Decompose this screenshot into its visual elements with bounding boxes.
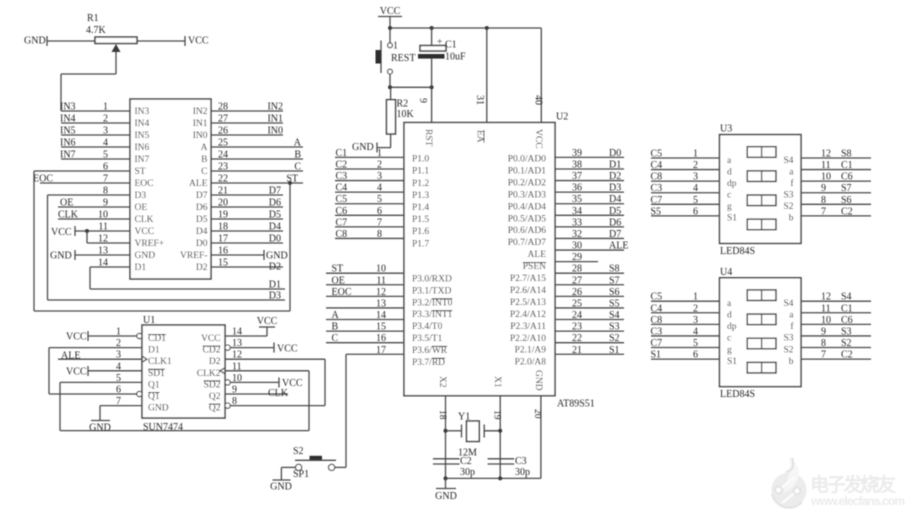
U4 pin 6 wire net S1 xyxy=(651,358,720,360)
wire Q1 to CLK2 loop xyxy=(59,382,61,430)
svg-text:d: d xyxy=(727,311,732,321)
svg-text:3: 3 xyxy=(693,315,698,326)
U4 pin 9 wire net S3 xyxy=(801,335,871,337)
svg-text:GND: GND xyxy=(533,370,543,391)
wire R1 wiper to ADC IN3 xyxy=(115,52,117,74)
svg-text:LED84S: LED84S xyxy=(720,389,755,400)
U3 pin 11 wire net C1 xyxy=(801,169,871,171)
ADC pin 2 wire xyxy=(61,122,130,124)
ADC pin 5 wire xyxy=(61,158,130,160)
U3 pin 1 wire net C5 xyxy=(651,157,720,159)
svg-text:P0.0/AD0: P0.0/AD0 xyxy=(508,155,547,165)
ADC pin 6 wire xyxy=(34,170,130,172)
svg-text:P0.3/AD3: P0.3/AD3 xyxy=(508,190,547,200)
svg-text:S3: S3 xyxy=(609,322,620,333)
svg-text:VREF+: VREF+ xyxy=(135,239,165,249)
U2 pin 21 P2.0 wire net S1 xyxy=(555,353,624,355)
svg-text:P1.5: P1.5 xyxy=(412,215,429,225)
svg-text:Q2: Q2 xyxy=(209,404,221,414)
svg-text:P1.7: P1.7 xyxy=(412,239,429,249)
svg-text:4.7K: 4.7K xyxy=(86,25,107,36)
svg-text:X2: X2 xyxy=(437,376,447,388)
U3 pin 7 wire net C2 xyxy=(801,215,871,217)
ADC pin 18 wire xyxy=(211,230,283,232)
svg-text:P2.3/A11: P2.3/A11 xyxy=(510,322,546,332)
U2 pin 4 P1.3 wire net C4 xyxy=(335,191,404,193)
svg-text:27: 27 xyxy=(218,114,228,125)
svg-text:b: b xyxy=(789,214,794,224)
svg-text:+: + xyxy=(437,38,442,48)
svg-text:8: 8 xyxy=(821,195,826,206)
svg-text:C4: C4 xyxy=(651,303,663,314)
svg-text:2: 2 xyxy=(693,303,698,314)
svg-text:D1: D1 xyxy=(269,280,281,291)
svg-text:11: 11 xyxy=(232,361,242,372)
svg-text:P1.1: P1.1 xyxy=(412,167,429,177)
wire X1 down xyxy=(499,396,501,479)
microcontroller U2 AT89S51 body xyxy=(404,123,555,396)
svg-text:31: 31 xyxy=(474,95,485,105)
svg-text:VCC: VCC xyxy=(66,332,87,343)
U2 pin 27 P2.6 wire net S7 xyxy=(555,284,624,286)
capacitor C3 30p xyxy=(488,458,515,460)
U2 pin 34 P0.5 wire net D5 xyxy=(555,214,624,216)
svg-text:12: 12 xyxy=(821,149,831,160)
wire EA pin 31 from VCC rail xyxy=(486,28,488,123)
svg-text:D6: D6 xyxy=(269,198,281,209)
svg-text:IN6: IN6 xyxy=(60,138,76,149)
svg-text:7: 7 xyxy=(377,217,382,228)
svg-text:SD2: SD2 xyxy=(204,380,221,390)
svg-text:15: 15 xyxy=(218,258,228,269)
svg-text:ALE: ALE xyxy=(609,241,628,252)
svg-text:C1: C1 xyxy=(841,303,853,314)
svg-text:S4: S4 xyxy=(841,292,852,303)
U4 segment box 4 xyxy=(747,362,776,373)
svg-text:12: 12 xyxy=(98,234,108,245)
svg-text:32: 32 xyxy=(572,229,582,240)
svg-text:IN0: IN0 xyxy=(193,131,208,141)
ADC pin 24 wire xyxy=(211,158,303,160)
svg-text:D5: D5 xyxy=(269,210,281,221)
svg-text:9: 9 xyxy=(232,385,237,396)
U2 pin 14 P3.4 wire xyxy=(326,319,404,321)
svg-text:VCC: VCC xyxy=(188,36,209,47)
wire Q1bar to D1 loop xyxy=(48,348,50,394)
U2 pin 3 P1.2 wire net C3 xyxy=(335,180,404,182)
svg-text:7: 7 xyxy=(821,350,826,361)
svg-text:26: 26 xyxy=(572,287,582,298)
svg-text:25: 25 xyxy=(218,138,228,149)
svg-text:18: 18 xyxy=(437,410,447,420)
ground label GND at R2 bottom xyxy=(377,147,391,149)
U2 pin 38 P0.1 wire net D1 xyxy=(555,168,624,170)
U3 pin 8 wire net S6 xyxy=(801,203,871,205)
svg-text:4: 4 xyxy=(693,326,698,337)
U2 pin 17 P3.7 wire xyxy=(346,353,404,355)
svg-text:4: 4 xyxy=(693,183,698,194)
svg-text:S4: S4 xyxy=(783,156,793,166)
svg-text:10uF: 10uF xyxy=(445,52,466,63)
ADC pin 4 wire xyxy=(61,146,130,148)
svg-text:23: 23 xyxy=(572,322,582,333)
svg-text:18: 18 xyxy=(218,222,228,233)
svg-text:C: C xyxy=(332,333,339,344)
svg-text:9: 9 xyxy=(821,326,826,337)
wire crystal ground rail xyxy=(446,477,541,479)
ground symbol below U1 xyxy=(91,420,110,422)
svg-text:S7: S7 xyxy=(841,183,852,194)
wire button to capacitor junction xyxy=(390,86,432,88)
svg-text:7: 7 xyxy=(821,206,826,217)
svg-text:P3.2/INT0: P3.2/INT0 xyxy=(412,298,453,308)
svg-text:8: 8 xyxy=(232,396,237,407)
wire S2 right to U2 pin 17 xyxy=(335,466,346,468)
U2 pin 2 P1.1 wire net C2 xyxy=(335,168,404,170)
svg-text:C1: C1 xyxy=(445,40,457,51)
svg-text:3: 3 xyxy=(377,171,382,182)
svg-text:D0: D0 xyxy=(609,148,621,159)
ADC pin 13 wire xyxy=(75,254,130,256)
svg-text:D3: D3 xyxy=(269,291,281,302)
svg-text:9: 9 xyxy=(417,98,428,103)
svg-text:R1: R1 xyxy=(87,13,99,24)
svg-text:S2: S2 xyxy=(293,446,304,457)
ADC pin 20 wire xyxy=(211,206,283,208)
svg-text:10K: 10K xyxy=(397,109,415,120)
svg-text:CLK2: CLK2 xyxy=(197,369,221,379)
capacitor C1 10uF electrolytic xyxy=(431,28,433,46)
svg-text:9: 9 xyxy=(103,198,108,209)
svg-text:S1: S1 xyxy=(727,357,737,367)
svg-text:11: 11 xyxy=(821,160,831,171)
svg-text:D4: D4 xyxy=(196,227,208,237)
svg-text:S8: S8 xyxy=(609,264,620,275)
ground symbol at S2 xyxy=(273,479,291,481)
svg-text:C3: C3 xyxy=(336,171,348,182)
svg-text:14: 14 xyxy=(232,327,242,338)
svg-text:S1: S1 xyxy=(651,350,662,361)
svg-text:C6: C6 xyxy=(841,315,853,326)
svg-text:S2: S2 xyxy=(609,333,620,344)
svg-text:4: 4 xyxy=(377,183,382,194)
U4 pin 3 wire net C8 xyxy=(651,323,720,325)
svg-text:EA: EA xyxy=(475,130,485,143)
svg-text:28: 28 xyxy=(572,264,582,275)
capacitor C2 30p xyxy=(433,458,460,460)
svg-text:www.elecfans.com: www.elecfans.com xyxy=(810,494,905,508)
junction ST at ADC pin 22 xyxy=(288,181,292,185)
ADC pin 9 wire xyxy=(58,206,130,208)
svg-text:1: 1 xyxy=(393,41,398,52)
svg-text:A: A xyxy=(294,138,302,149)
svg-text:23: 23 xyxy=(218,162,228,173)
svg-text:IN7: IN7 xyxy=(135,155,150,165)
power label VCC at ADC pin 11 with junction to pin 12 xyxy=(74,226,76,236)
svg-text:AT89S51: AT89S51 xyxy=(557,399,595,410)
svg-text:7: 7 xyxy=(116,396,121,407)
ADC pin 21 wire xyxy=(211,194,283,196)
svg-text:P0.4/AD4: P0.4/AD4 xyxy=(508,202,547,212)
svg-text:S3: S3 xyxy=(841,326,852,337)
ground label GND at U2 pin 1 region xyxy=(389,147,390,149)
svg-text:S3: S3 xyxy=(783,191,793,201)
flip-flop U1 body xyxy=(142,325,225,418)
svg-text:P3.6/WR: P3.6/WR xyxy=(412,346,448,356)
U3 pin 4 wire net C3 xyxy=(651,192,720,194)
svg-text:35: 35 xyxy=(572,194,582,205)
U3 pin 6 wire net S5 xyxy=(651,215,720,217)
svg-text:IN2: IN2 xyxy=(193,107,208,117)
svg-text:D7: D7 xyxy=(196,191,208,201)
svg-text:5: 5 xyxy=(377,194,382,205)
svg-text:S1: S1 xyxy=(609,345,620,356)
svg-text:D5: D5 xyxy=(196,215,208,225)
push button S1 REST xyxy=(389,28,391,43)
svg-text:CLK: CLK xyxy=(268,388,289,399)
svg-text:SD1: SD1 xyxy=(148,369,165,379)
svg-text:P3.5/T1: P3.5/T1 xyxy=(412,334,443,344)
svg-text:C7: C7 xyxy=(336,217,348,228)
svg-text:LED84S: LED84S xyxy=(720,246,755,257)
svg-text:39: 39 xyxy=(572,148,582,159)
svg-text:VCC: VCC xyxy=(201,334,221,344)
svg-text:P2.0/A8: P2.0/A8 xyxy=(515,358,547,368)
svg-text:P3.1/TXD: P3.1/TXD xyxy=(412,286,451,296)
svg-text:20: 20 xyxy=(532,409,542,419)
svg-text:1: 1 xyxy=(693,149,698,160)
svg-text:S5: S5 xyxy=(609,298,620,309)
svg-text:GND: GND xyxy=(89,423,111,434)
svg-text:d: d xyxy=(727,167,732,177)
U3 segment box 1 xyxy=(747,147,776,158)
svg-text:SP1: SP1 xyxy=(293,469,309,480)
svg-text:B: B xyxy=(201,155,207,165)
svg-text:VCC: VCC xyxy=(533,129,543,149)
svg-text:P2.5/A13: P2.5/A13 xyxy=(510,298,546,308)
svg-text:GND: GND xyxy=(352,142,374,153)
svg-text:GND: GND xyxy=(50,251,72,262)
svg-text:30p: 30p xyxy=(515,467,530,478)
U4 pin 10 wire net C6 xyxy=(801,323,871,325)
svg-text:30p: 30p xyxy=(460,467,475,478)
svg-text:24: 24 xyxy=(572,310,582,321)
svg-text:OE: OE xyxy=(135,203,148,213)
U3 segment box 2 xyxy=(747,171,776,182)
svg-text:IN4: IN4 xyxy=(135,119,150,129)
svg-text:2: 2 xyxy=(377,159,382,170)
svg-text:VCC: VCC xyxy=(66,366,87,377)
U3 pin 9 wire net S7 xyxy=(801,192,871,194)
svg-text:R2: R2 xyxy=(397,99,409,110)
svg-text:26: 26 xyxy=(218,126,228,137)
svg-text:D1: D1 xyxy=(135,263,147,273)
svg-text:A: A xyxy=(332,310,340,321)
svg-text:C7: C7 xyxy=(651,338,663,349)
svg-text:c: c xyxy=(727,191,731,201)
U4 pin 12 wire net S4 xyxy=(801,300,871,302)
svg-text:S2: S2 xyxy=(841,338,852,349)
ADC pin 26 wire xyxy=(211,134,283,136)
svg-text:OE: OE xyxy=(60,198,73,209)
U2 pin 30 ALE wire xyxy=(555,249,624,251)
U2 pin 11 P3.1 wire xyxy=(326,284,404,286)
svg-text:VREF-: VREF- xyxy=(180,251,207,261)
U2 pin 32 P0.7 wire net D7 xyxy=(555,237,624,239)
wire net ST loop from ADC pin 6 to pin 22 xyxy=(33,171,35,311)
svg-text:电子发烧友: 电子发烧友 xyxy=(810,473,896,496)
svg-text:C1: C1 xyxy=(336,148,348,159)
svg-text:SUN7474: SUN7474 xyxy=(143,422,183,433)
svg-text:c: c xyxy=(727,334,731,344)
ground label GND at ADC pin 13 xyxy=(74,250,76,260)
svg-text:1: 1 xyxy=(377,148,382,159)
ground symbol below crystal xyxy=(445,478,447,488)
svg-text:27: 27 xyxy=(572,275,582,286)
U2 pin 29 PSEN wire xyxy=(555,261,598,263)
svg-text:2: 2 xyxy=(103,114,108,125)
elecfans watermark logo xyxy=(772,457,906,508)
svg-text:21: 21 xyxy=(572,345,582,356)
ADC pin 25 wire xyxy=(211,146,303,148)
ADC pin 11 wire xyxy=(75,230,130,232)
U3 pin 10 wire net C6 xyxy=(801,180,871,182)
svg-text:C8: C8 xyxy=(336,229,348,240)
svg-text:IN3: IN3 xyxy=(135,107,150,117)
svg-text:X1: X1 xyxy=(492,376,502,388)
svg-text:33: 33 xyxy=(572,217,582,228)
ADC pin 8 wire xyxy=(48,194,131,196)
svg-text:D2: D2 xyxy=(209,357,221,367)
svg-text:S1: S1 xyxy=(727,214,737,224)
svg-text:16: 16 xyxy=(376,333,386,344)
svg-text:8: 8 xyxy=(103,186,108,197)
svg-text:C2: C2 xyxy=(841,206,853,217)
svg-text:GND: GND xyxy=(24,36,46,47)
U4 pin 2 wire net C4 xyxy=(651,312,720,314)
wire net D3 from ADC pin 8 xyxy=(47,195,49,300)
ground label GND at ADC pin 16 xyxy=(263,250,265,260)
svg-text:10: 10 xyxy=(98,210,108,221)
U1 pin 5 Q1 wire xyxy=(60,381,142,383)
U1 pin 13 CD2 wire with VCC xyxy=(225,345,230,350)
U1 pin 10 SD2 wire with VCC xyxy=(225,380,230,385)
svg-text:S7: S7 xyxy=(609,275,620,286)
svg-text:22: 22 xyxy=(572,333,582,344)
svg-text:6: 6 xyxy=(116,385,121,396)
svg-text:P0.6/AD6: P0.6/AD6 xyxy=(508,226,547,236)
svg-text:11: 11 xyxy=(376,275,386,286)
svg-text:EOC: EOC xyxy=(135,179,154,189)
wire Q2bar to D2 loop xyxy=(324,359,326,405)
ADC pin 22 wire xyxy=(211,182,303,184)
svg-text:10: 10 xyxy=(821,172,831,183)
U2 pin 8 P1.7 wire net C8 xyxy=(335,237,404,239)
svg-text:20: 20 xyxy=(218,198,228,209)
svg-text:GND: GND xyxy=(148,404,169,414)
svg-text:D0: D0 xyxy=(196,239,208,249)
svg-text:S6: S6 xyxy=(841,195,852,206)
U2 pin 37 P0.2 wire net D2 xyxy=(555,180,624,182)
svg-text:5: 5 xyxy=(693,338,698,349)
svg-text:ST: ST xyxy=(332,264,344,275)
U4 pin 5 wire net C7 xyxy=(651,347,720,349)
svg-text:6: 6 xyxy=(103,162,108,173)
svg-text:D7: D7 xyxy=(269,186,281,197)
ADC pin 27 wire xyxy=(211,122,283,124)
svg-text:D2: D2 xyxy=(196,263,208,273)
svg-text:REST: REST xyxy=(391,53,415,64)
svg-text:30: 30 xyxy=(572,241,582,252)
U4 segment box 1 xyxy=(747,290,776,301)
svg-text:CD2: CD2 xyxy=(203,346,221,356)
U3 segment box 4 xyxy=(747,219,776,230)
ADC pin 16 wire xyxy=(211,254,264,256)
svg-text:VCC: VCC xyxy=(380,6,401,17)
svg-text:VCC: VCC xyxy=(51,227,72,238)
svg-text:IN5: IN5 xyxy=(60,126,76,137)
U1 clock input arrow CLK2 xyxy=(220,368,225,374)
svg-text:dp: dp xyxy=(727,322,737,332)
svg-text:P1.2: P1.2 xyxy=(412,179,429,189)
U1 pin 7 GND wire xyxy=(100,405,142,407)
svg-text:dp: dp xyxy=(727,179,737,189)
svg-text:12: 12 xyxy=(376,287,386,298)
svg-text:VCC: VCC xyxy=(277,344,298,355)
svg-text:P2.6/A14: P2.6/A14 xyxy=(510,286,546,296)
svg-text:IN3: IN3 xyxy=(60,102,76,113)
svg-text:1: 1 xyxy=(116,327,121,338)
svg-text:19: 19 xyxy=(218,210,228,221)
svg-text:EOC: EOC xyxy=(33,174,53,185)
svg-text:6: 6 xyxy=(377,206,382,217)
svg-text:U2: U2 xyxy=(556,112,568,123)
svg-text:10: 10 xyxy=(232,373,242,384)
U2 pin 26 P2.5 wire net S6 xyxy=(555,295,624,297)
ADC pin 19 wire xyxy=(211,218,283,220)
svg-text:16: 16 xyxy=(218,246,228,257)
svg-text:A: A xyxy=(201,143,208,153)
U2 pin 35 P0.4 wire net D4 xyxy=(555,203,624,205)
svg-text:GND: GND xyxy=(135,251,156,261)
svg-text:7: 7 xyxy=(103,174,108,185)
svg-text:21: 21 xyxy=(218,186,228,197)
svg-text:D3: D3 xyxy=(135,191,147,201)
svg-text:IN0: IN0 xyxy=(267,126,283,137)
svg-text:C2: C2 xyxy=(841,350,853,361)
U3 segment box 3 xyxy=(747,195,776,206)
U2 pin 22 P2.1 wire net S2 xyxy=(555,342,624,344)
svg-text:S3: S3 xyxy=(783,334,793,344)
svg-text:S4: S4 xyxy=(609,310,620,321)
svg-text:VCC: VCC xyxy=(135,227,155,237)
U1 pin 8 Q2bar wire xyxy=(225,403,230,408)
svg-text:40: 40 xyxy=(533,95,544,105)
svg-text:P1.6: P1.6 xyxy=(412,227,429,237)
svg-text:g: g xyxy=(727,202,732,212)
ADC pin 1 wire xyxy=(61,110,130,112)
svg-text:GND: GND xyxy=(266,251,288,262)
svg-text:C6: C6 xyxy=(336,206,348,217)
svg-text:P1.0: P1.0 xyxy=(412,155,429,165)
U2 pin 25 P2.4 wire net S5 xyxy=(555,307,624,309)
U3 pin 5 wire net C7 xyxy=(651,203,720,205)
svg-text:ALE: ALE xyxy=(189,179,208,189)
svg-text:3: 3 xyxy=(116,350,121,361)
svg-text:D6: D6 xyxy=(196,203,208,213)
svg-text:P3.4/T0: P3.4/T0 xyxy=(412,322,443,332)
svg-text:D5: D5 xyxy=(609,206,621,217)
